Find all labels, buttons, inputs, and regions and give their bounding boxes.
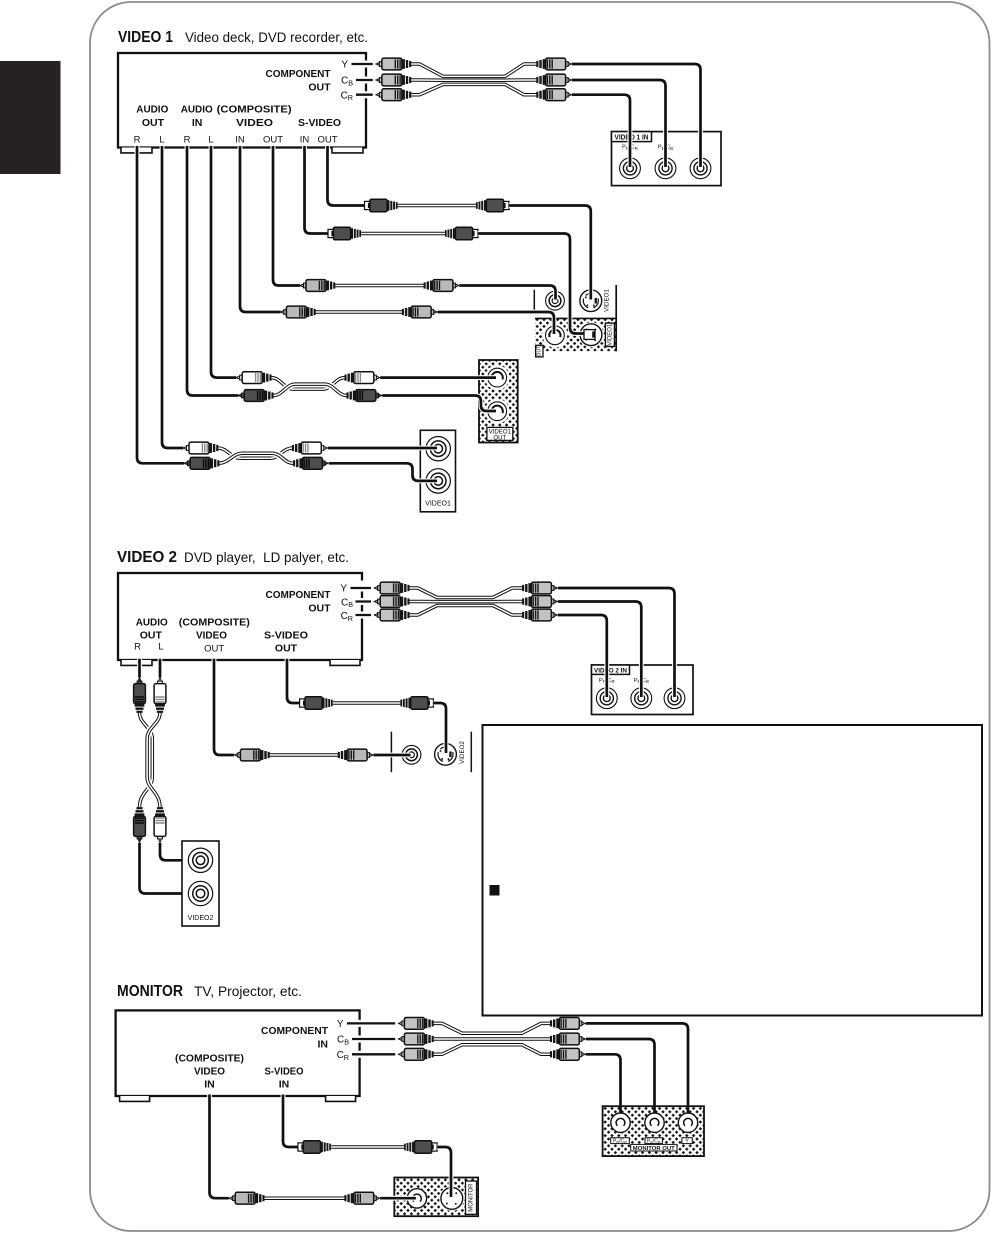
- svg-text:COMPONENT: COMPONENT: [261, 1025, 329, 1037]
- VIDEO2 Y plug left: [374, 582, 409, 594]
- VIDEO2 CB plug right: [522, 596, 557, 608]
- MONITOR CB plug right: [550, 1033, 585, 1045]
- s-video plug B right: [445, 227, 478, 240]
- wire VIDEO OUT: [214, 659, 234, 755]
- wire cable C to video IN jack: [459, 286, 555, 300]
- dark cable: [140, 713, 153, 808]
- wire audio white to VIDEO1 panel L: [328, 446, 437, 451]
- rca plug D left: [281, 306, 316, 318]
- svg-text:(COMPOSITE): (COMPOSITE): [217, 104, 292, 116]
- svg-text:OUT: OUT: [493, 435, 506, 442]
- wire audio white to VIDEO1 OUT L: [380, 375, 496, 380]
- svg-text:VIDEO2: VIDEO2: [459, 741, 466, 764]
- wire MONITOR Y to jack: [586, 1023, 688, 1121]
- svg-text:R: R: [134, 135, 141, 146]
- audio pair 2 dark plug left: [184, 457, 219, 469]
- svg-text:Y: Y: [341, 60, 348, 71]
- dark plug bottom: [134, 807, 146, 842]
- device feet: [120, 1096, 150, 1101]
- svg-text:OUT: OUT: [263, 135, 283, 146]
- wire VIDEO OUT: [273, 146, 300, 286]
- svg-text:OUT: OUT: [308, 82, 331, 94]
- wire white to VIDEO2 L: [160, 843, 200, 861]
- MONITOR CR plug left: [399, 1048, 434, 1060]
- svg-text:MONITOR: MONITOR: [117, 983, 183, 1000]
- svg-text:OUT: OUT: [204, 644, 224, 655]
- svg-text:L: L: [159, 135, 164, 146]
- wire cable B to s-video OUT jack: [478, 234, 585, 334]
- wire VIDEO1 CR to jack: [572, 95, 630, 167]
- svg-text:S-VIDEO: S-VIDEO: [264, 630, 308, 642]
- svg-text:OUT: OUT: [537, 345, 543, 357]
- dotted OUT region: [535, 318, 616, 351]
- svg-text:VIDEO1: VIDEO1: [607, 323, 613, 346]
- svg-text:OUT: OUT: [140, 630, 163, 642]
- audio pair 2 white plug right: [292, 442, 327, 454]
- audio pair 2 white plug left: [183, 442, 218, 454]
- VIDEO1 audio IN panel: [420, 430, 455, 512]
- wire VIDEO2 CR to jack: [558, 615, 607, 697]
- svg-text:R: R: [134, 642, 141, 653]
- VIDEO2 CB plug left: [374, 596, 409, 608]
- svg-text:IN: IN: [300, 135, 310, 146]
- svg-text:MONITOR OUT: MONITOR OUT: [633, 1146, 676, 1152]
- svg-text:DVD player, LD palyer, etc.: DVD player, LD palyer, etc.: [184, 549, 349, 565]
- white plug bottom: [154, 807, 166, 842]
- rca plug C left: [300, 280, 335, 292]
- note bullet square: [490, 885, 500, 896]
- audio pair 1 white cable: [271, 378, 344, 390]
- rca plug right: [344, 1192, 379, 1204]
- VIDEO 2 IN panel: [592, 665, 694, 715]
- VIDEO2 audio panel: [182, 841, 219, 926]
- audio pair 2 dark cable: [219, 453, 293, 463]
- receiver VIDEO1 s-video IN jack: [580, 290, 602, 312]
- wire dark to VIDEO2 R: [140, 843, 200, 894]
- audio pair 2 white cable: [218, 448, 292, 458]
- VIDEO1 CR plug right: [536, 89, 571, 101]
- s-video plug A left: [365, 199, 398, 212]
- monitor s-video jack: [439, 1186, 464, 1211]
- device feet: [121, 148, 152, 153]
- wire to s-video jack: [433, 703, 446, 753]
- svg-text:Video deck, DVD recorder, etc.: Video deck, DVD recorder, etc.: [185, 29, 368, 45]
- svg-text:Y: Y: [340, 584, 347, 595]
- rca plug C right: [424, 280, 459, 292]
- VIDEO2 CR plug left: [374, 609, 409, 621]
- svg-text:VIDEO: VIDEO: [194, 1066, 225, 1078]
- monitor composite jack: [407, 1189, 426, 1208]
- VIDEO2 CR plug right: [522, 609, 557, 621]
- MONITOR CB plug left: [399, 1033, 434, 1045]
- component IN jacks: [620, 158, 641, 179]
- wire S-VIDEO IN: [305, 146, 329, 234]
- wire VIDEO2 Y to jack: [558, 588, 675, 697]
- lead lines from Y/CB/CR labels: [352, 64, 373, 95]
- svg-text:TV, Projector, etc.: TV, Projector, etc.: [194, 983, 302, 999]
- svg-text:IN: IN: [204, 1079, 215, 1091]
- device feet: [121, 660, 152, 665]
- VIDEO 1 section: [118, 29, 721, 512]
- svg-text:VIDEO1: VIDEO1: [604, 289, 611, 312]
- VIDEO 2 section: [117, 549, 693, 926]
- svg-text:Y: Y: [337, 1019, 344, 1030]
- svg-text:OUT: OUT: [275, 643, 298, 655]
- jack label boxes: [611, 1138, 630, 1144]
- svg-text:VIDEO 2 IN: VIDEO 2 IN: [594, 668, 627, 675]
- audio pair 1 white plug right: [345, 372, 380, 384]
- wire VIDEO IN: [240, 146, 281, 312]
- svg-text:AUDIO: AUDIO: [136, 617, 168, 629]
- note box (empty callout): [483, 725, 983, 1016]
- receiver VIDEO1 s-video OUT jack: [578, 322, 603, 347]
- wire cable D to video OUT jack: [438, 312, 554, 334]
- VIDEO1 OUT panel (dotted): [479, 360, 518, 443]
- wire audio dark to VIDEO1 OUT R: [382, 396, 496, 412]
- receiver VIDEO1 jacks area: left edge fragment: [533, 290, 535, 310]
- rca plug right: [338, 749, 373, 761]
- MONITOR OUT panel: [603, 1106, 704, 1156]
- svg-text:PB/CB: PB/CB: [647, 1139, 661, 1145]
- cable body: [264, 1196, 344, 1200]
- rca plug left: [229, 1192, 264, 1204]
- s-video plug right: [404, 1141, 437, 1154]
- wire VIDEO1 CB to jack: [572, 80, 666, 167]
- VIDEO 1 IN panel: [612, 132, 722, 186]
- svg-text:MONITOR: MONITOR: [468, 1183, 474, 1212]
- VIDEO1 CB plug left: [376, 74, 411, 86]
- dashed portion of right edge: [357, 1014, 362, 1061]
- wire S-VIDEO IN: [283, 1095, 298, 1148]
- svg-text:AUDIO: AUDIO: [181, 104, 213, 116]
- VIDEO1 Y plug left: [376, 58, 411, 70]
- wire VIDEO1 Y to jack: [572, 64, 701, 167]
- dashed portion of right edge: [360, 577, 365, 624]
- VIDEO1 Y plug right: [536, 58, 571, 70]
- svg-text:VIDEO 1: VIDEO 1: [118, 29, 173, 46]
- audio pair 1 dark plug right: [347, 390, 382, 402]
- wire VIDEO IN: [210, 1095, 229, 1199]
- audio pair 2 dark plug right: [293, 457, 328, 469]
- VIDEO1 component video cable (Y/CB/CR): [411, 64, 537, 95]
- monitor device box: [116, 1010, 360, 1096]
- MONITOR dotted panel: [394, 1178, 478, 1217]
- cable body: [331, 1145, 404, 1149]
- svg-text:IN: IN: [279, 1079, 290, 1091]
- s-video plug A right: [476, 199, 509, 212]
- wire VIDEO2 CB to jack: [558, 602, 642, 698]
- receiver VIDEO1 composite IN jack: [546, 291, 565, 310]
- wire AUDIO OUT R: [137, 146, 184, 463]
- cable C body: [335, 284, 424, 288]
- audio pair 1 white plug left: [236, 372, 271, 384]
- wire MONITOR CR to jack: [586, 1054, 621, 1121]
- wire AUDIO OUT L: [162, 146, 183, 448]
- svg-text:VIDEO: VIDEO: [196, 630, 227, 642]
- svg-text:VIDEO 2: VIDEO 2: [117, 549, 177, 566]
- boxed rotated VIDEO1 label: [605, 323, 614, 346]
- wire AUDIO OUT R: [137, 659, 142, 678]
- svg-text:IN: IN: [192, 117, 203, 129]
- svg-text:IN: IN: [318, 1039, 329, 1051]
- s-video plug right: [400, 697, 433, 710]
- white cable: [147, 713, 160, 808]
- svg-text:S-VIDEO: S-VIDEO: [265, 1066, 304, 1078]
- svg-text:VIDEO1: VIDEO1: [425, 501, 451, 508]
- MONITOR component video cable (Y/CB/CR): [434, 1023, 551, 1054]
- lead lines: [351, 588, 372, 615]
- VIDEO2 Y plug right: [522, 582, 557, 594]
- black index tab on left edge: [0, 61, 61, 174]
- s-video plug B left: [328, 227, 361, 240]
- receiver VIDEO2 s-video IN jack: [435, 743, 457, 765]
- svg-text:PR/CR: PR/CR: [613, 1139, 627, 1145]
- VIDEO2 component video cable (Y/CB/CR): [409, 588, 522, 615]
- cable body: [333, 701, 401, 705]
- svg-text:COMPONENT: COMPONENT: [266, 589, 332, 601]
- receiver VIDEO2 composite IN jack: [402, 745, 421, 764]
- MONITOR section: [116, 983, 704, 1216]
- receiver VIDEO1 composite OUT jack: [543, 323, 568, 348]
- svg-text:S-VIDEO: S-VIDEO: [298, 117, 341, 129]
- svg-text:OUT: OUT: [142, 117, 165, 129]
- cable body: [270, 753, 339, 757]
- wire S-VIDEO OUT: [287, 659, 300, 703]
- MONITOR CR plug right: [550, 1048, 585, 1060]
- cable B body: [361, 232, 445, 236]
- VIDEO1 CB plug right: [536, 74, 571, 86]
- svg-text:OUT: OUT: [308, 603, 331, 615]
- rca plug D right: [402, 306, 437, 318]
- inserted connector in s-video OUT jack: [584, 330, 595, 340]
- MONITOR Y plug left: [399, 1018, 434, 1030]
- svg-text:COMPONENT: COMPONENT: [266, 68, 332, 80]
- s-video plug left: [298, 1141, 331, 1154]
- svg-text:(COMPOSITE): (COMPOSITE): [179, 617, 250, 629]
- wire audio dark to VIDEO1 panel R: [329, 463, 437, 481]
- dark plug top: [134, 678, 146, 713]
- svg-text:VIDEO2: VIDEO2: [188, 915, 214, 922]
- receiver VIDEO2 jack area fragments: [390, 732, 392, 773]
- wire S-VIDEO OUT: [328, 146, 366, 206]
- boxed rotated OUT label: [536, 345, 543, 357]
- cable A body: [398, 204, 477, 208]
- wire cable A to s-video IN jack: [509, 206, 591, 300]
- lead lines: [347, 1023, 395, 1054]
- DVD player device box: [118, 573, 362, 660]
- audio pair 1 dark cable: [273, 384, 346, 395]
- audio pair 1 dark plug left: [238, 390, 273, 402]
- video deck device box: [118, 53, 366, 148]
- s-video plug left: [300, 697, 333, 710]
- wire AUDIO IN R: [187, 146, 238, 396]
- svg-text:VIDEO: VIDEO: [236, 117, 273, 129]
- MONITOR Y plug right: [550, 1018, 585, 1030]
- wire AUDIO OUT L: [158, 659, 163, 678]
- dashed portion of right edge near component jacks: [364, 56, 369, 104]
- svg-text:R: R: [184, 135, 191, 146]
- wire to video jack: [374, 753, 411, 758]
- svg-text:(COMPOSITE): (COMPOSITE): [175, 1053, 244, 1065]
- wire to video jack: [380, 1196, 416, 1201]
- VIDEO1 CR plug left: [376, 89, 411, 101]
- svg-text:OUT: OUT: [317, 135, 337, 146]
- white plug top: [154, 678, 166, 713]
- cable D body: [316, 310, 403, 314]
- svg-text:AUDIO: AUDIO: [136, 104, 168, 116]
- wire MONITOR CB to jack: [586, 1039, 655, 1121]
- svg-text:L: L: [158, 642, 163, 653]
- svg-text:L: L: [208, 135, 213, 146]
- svg-text:IN: IN: [235, 135, 245, 146]
- wire AUDIO IN L: [211, 146, 236, 378]
- rca plug left: [235, 749, 270, 761]
- receiver VIDEO1 area right edge: [615, 285, 617, 351]
- wire to s-video jack: [437, 1147, 451, 1197]
